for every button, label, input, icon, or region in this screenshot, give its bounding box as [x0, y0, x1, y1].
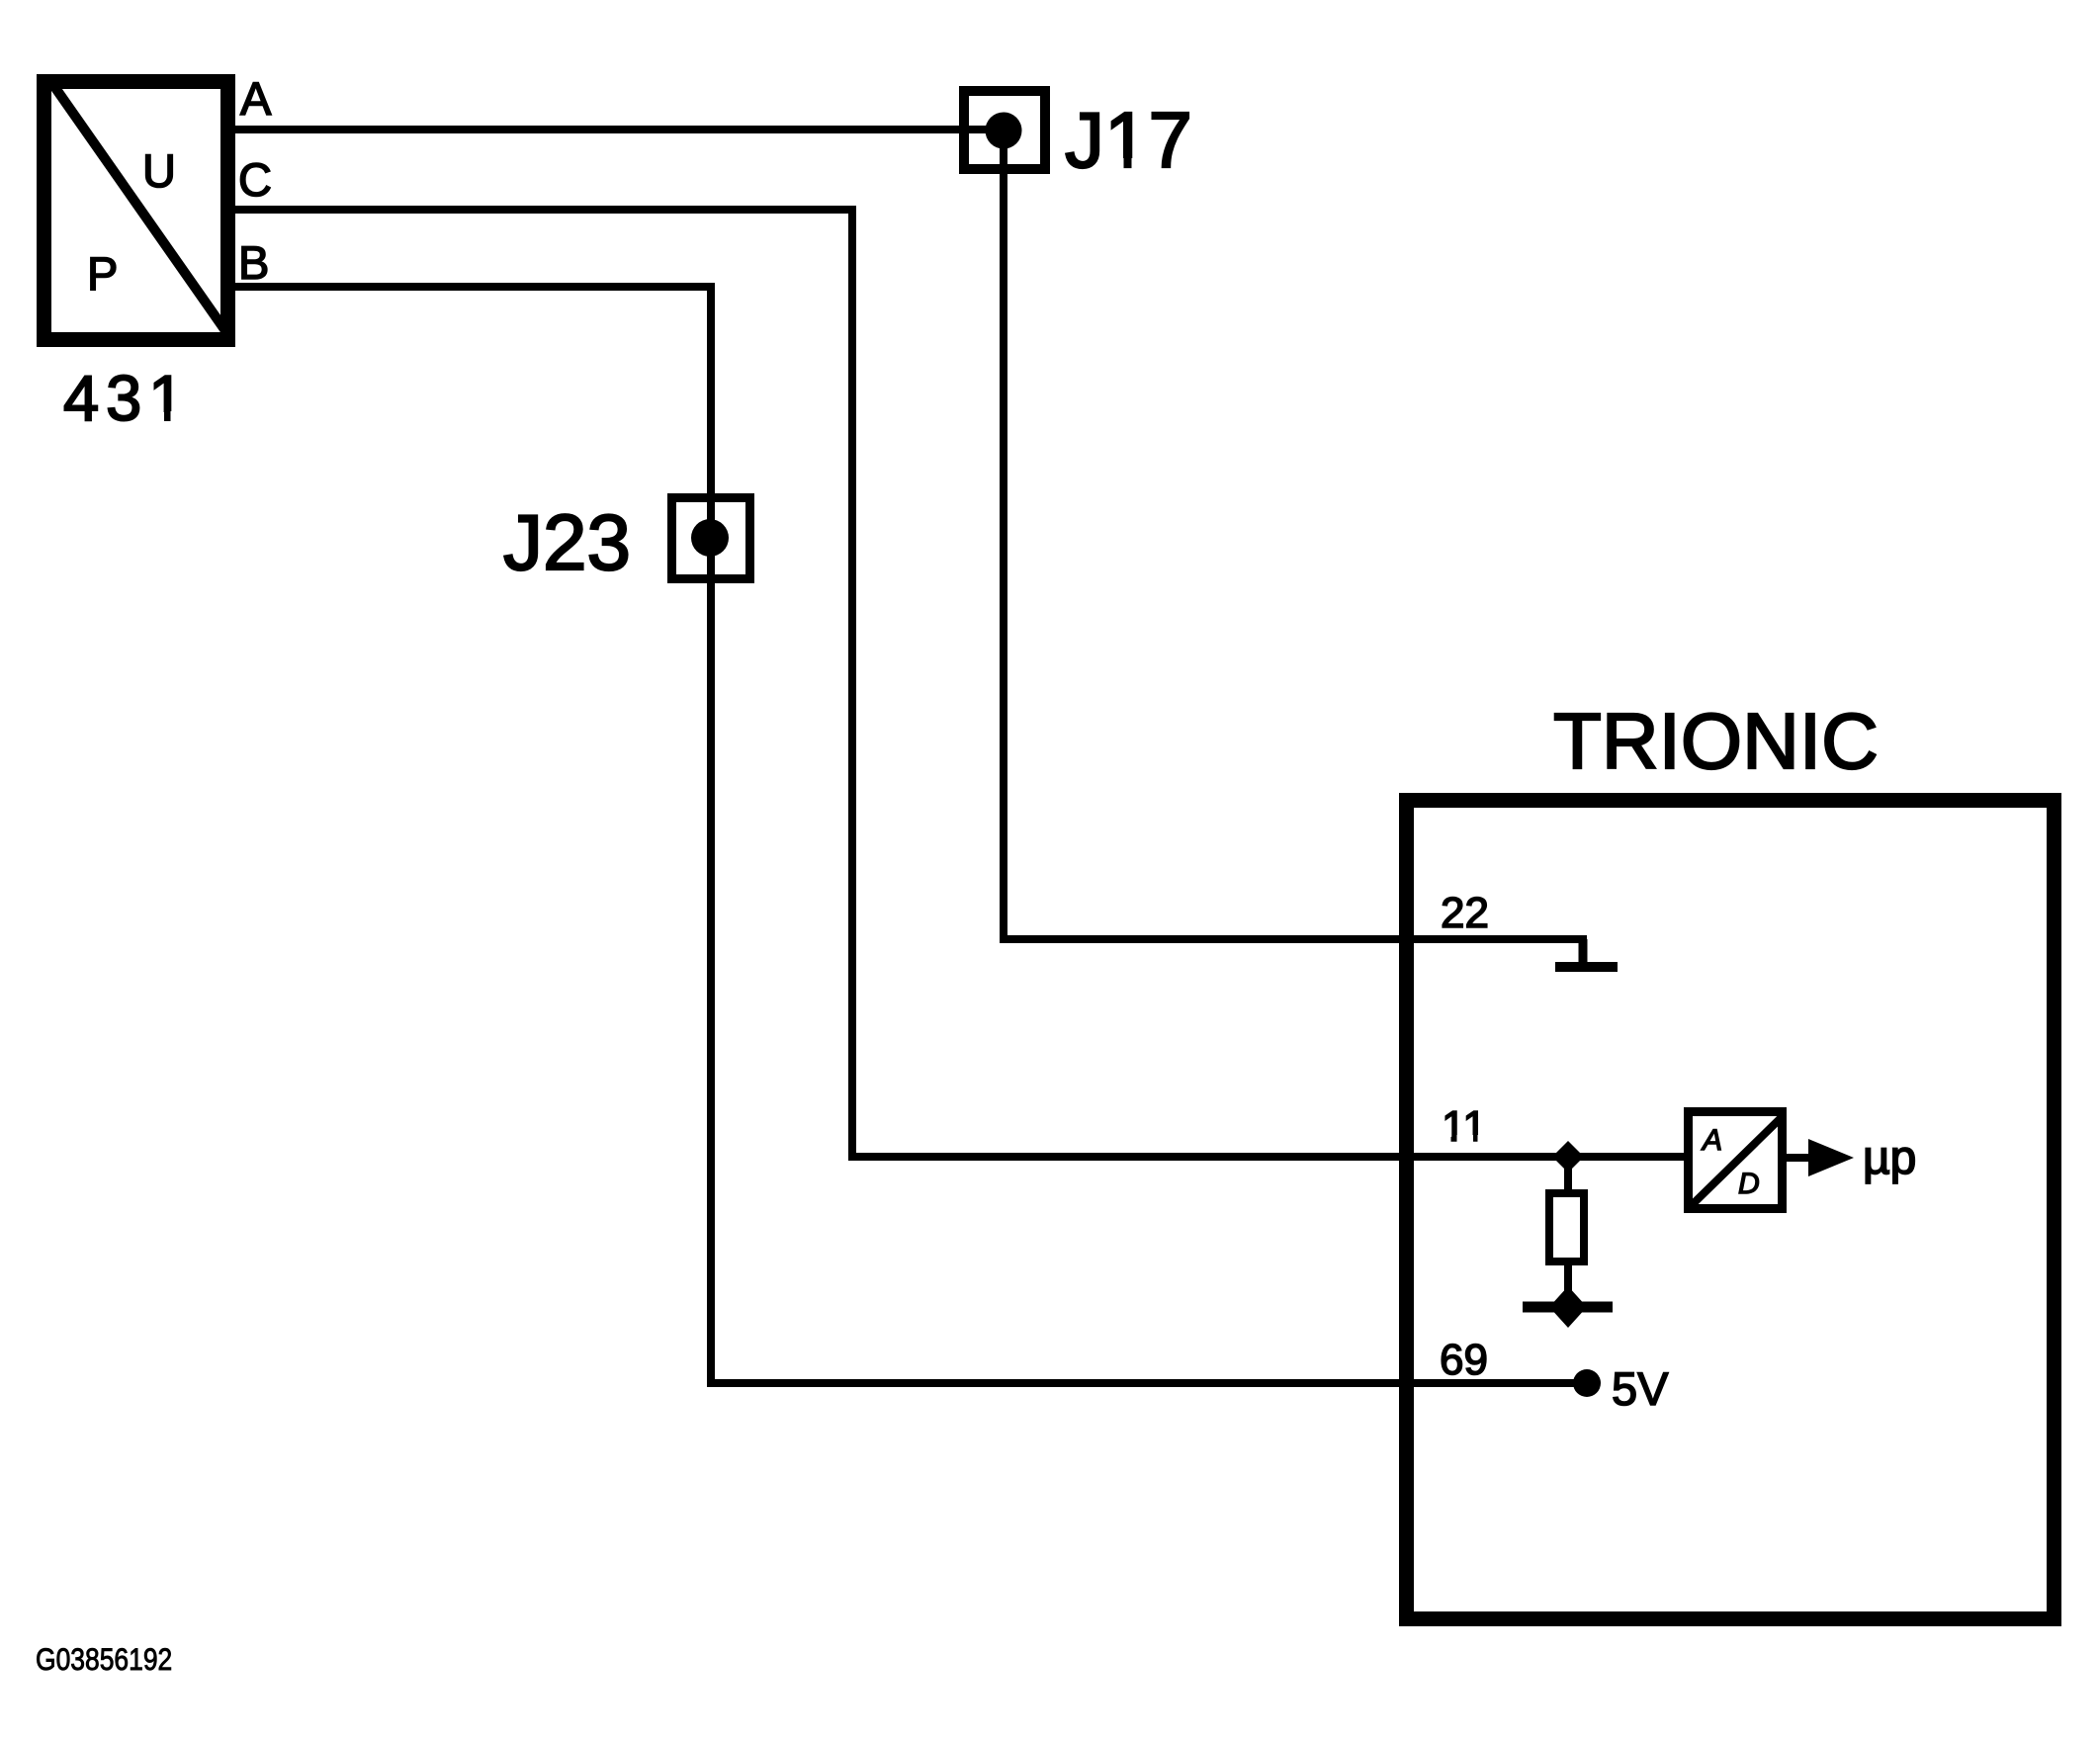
- node junction on pin 11 wire: [1552, 1141, 1584, 1173]
- wire C from 431 pin C to TRIONIC pin 11: [235, 210, 1685, 1157]
- svg-text:B: B: [238, 236, 269, 289]
- wire from splice J17 to TRIONIC pin 22: [1004, 130, 1587, 939]
- pin 22 internal ground stub: [1579, 939, 1588, 966]
- A/D converter diagonal: [1693, 1116, 1783, 1204]
- splice J23 dot: [691, 519, 729, 557]
- svg-text:G03856192: G03856192: [36, 1643, 172, 1678]
- A/D converter box: [1689, 1112, 1783, 1209]
- sensor 431 diagonal: [53, 85, 226, 332]
- internal ground node diamond: [1549, 1286, 1587, 1328]
- splice J17 box: [964, 91, 1045, 169]
- svg-text:A: A: [240, 72, 272, 125]
- sensor 431 box: [44, 82, 228, 340]
- svg-text:22: 22: [1441, 889, 1489, 937]
- 5V supply dot: [1573, 1369, 1601, 1397]
- svg-text:µp: µp: [1863, 1132, 1916, 1184]
- svg-text:5V: 5V: [1612, 1362, 1669, 1415]
- svg-text:69: 69: [1440, 1336, 1488, 1384]
- wire from junction to resistor: [1564, 1157, 1572, 1196]
- splice J23 box: [672, 498, 750, 579]
- TRIONIC ECU box: [1407, 801, 2055, 1619]
- splice J17 dot: [986, 113, 1022, 149]
- svg-text:U: U: [142, 144, 176, 197]
- svg-text:J23: J23: [503, 498, 631, 586]
- svg-text:11: 11: [1442, 1102, 1487, 1151]
- resistor (pull-down): [1549, 1193, 1584, 1261]
- wire from resistor to internal ground: [1564, 1261, 1572, 1307]
- svg-text:A: A: [1701, 1124, 1722, 1157]
- wire A from 431 pin A to splice J17: [235, 126, 1004, 133]
- svg-text:P: P: [87, 247, 118, 300]
- pin 22 internal ground bar: [1555, 962, 1618, 972]
- wire from A/D to microprocessor: [1787, 1154, 1811, 1162]
- arrowhead to microprocessor: [1808, 1139, 1854, 1176]
- wire B from 431 pin B through J23 to TRIONIC pin 69: [235, 287, 1580, 1383]
- internal ground bar under resistor: [1523, 1302, 1613, 1313]
- svg-text:TRIONIC: TRIONIC: [1553, 697, 1879, 785]
- svg-text:D: D: [1738, 1168, 1760, 1200]
- svg-text:J17: J17: [1065, 96, 1192, 184]
- svg-text:C: C: [238, 153, 272, 206]
